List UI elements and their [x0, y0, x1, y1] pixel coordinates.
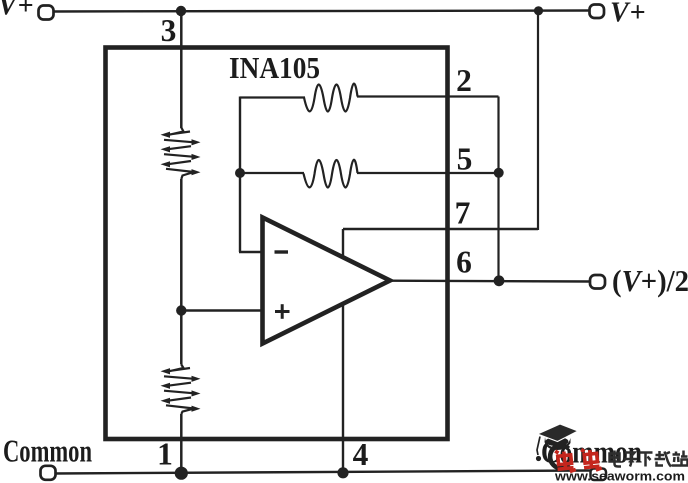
junction: bottom rail / pin 1 [175, 467, 188, 480]
wire: bottom Common rail [54, 471, 591, 474]
terminal: Common bottom-left [41, 466, 56, 480]
wire: right vertical pin2-pin5-pin6 [497, 97, 499, 282]
junction: R2 left / inverting node [235, 168, 245, 178]
svg-text:1: 1 [157, 437, 173, 472]
op-amp minus sign [275, 250, 289, 253]
junction: top rail / pin3 [176, 6, 186, 16]
watermark: graduation cap board [538, 424, 579, 442]
watermark: cap tassel [537, 437, 540, 456]
svg-text:V+: V+ [610, 0, 646, 29]
watermark: red bug 1 [555, 449, 576, 473]
watermark: logo big C [550, 445, 569, 468]
svg-text:INA105: INA105 [229, 50, 320, 85]
watermark: text 电子下载站 (drawn) [610, 451, 688, 467]
svg-text:Common: Common [3, 433, 92, 469]
svg-text:6: 6 [456, 245, 472, 280]
resistor: R1 (wavy) [304, 84, 358, 112]
svg-text:3: 3 [161, 13, 177, 48]
junction: top rail / pin7 net [534, 6, 543, 15]
wire: pin5 / R2 [240, 172, 304, 174]
svg-text:V+: V+ [0, 0, 34, 22]
wire: pin 3 vertical (V+ divider) [180, 11, 183, 128]
junction: pin5 / right vertical [494, 168, 504, 178]
terminal: Common bottom-right [591, 469, 607, 481]
IC box INA105 [106, 48, 448, 440]
junction: + input node [176, 305, 186, 315]
wire: inverting input vertical [239, 97, 241, 253]
wire: op-amp supply vertical to pin 4 [342, 229, 344, 474]
wire: + input [181, 309, 263, 311]
svg-text:5: 5 [457, 142, 473, 177]
svg-text:7: 7 [455, 196, 471, 231]
resistor: upper divider (arrow zigzag) [161, 128, 201, 180]
terminal: V+ top-left [39, 6, 54, 20]
svg-text:(V+)/2: (V+)/2 [612, 263, 688, 298]
junction: pin6 / right vertical [494, 275, 505, 286]
watermark: red bug 2 [581, 448, 602, 472]
站 [672, 451, 688, 466]
子 [624, 453, 638, 467]
svg-text:4: 4 [353, 437, 369, 472]
svg-text:www.seaworm.com: www.seaworm.com [554, 470, 685, 483]
junction: bottom rail / pin 4 [337, 467, 348, 478]
resistor: lower divider (arrow zigzag) [161, 365, 201, 415]
下 [640, 453, 653, 467]
op-amp U1 [263, 218, 391, 344]
op-amp plus sign [275, 310, 290, 313]
resistor: R2 (wavy) [304, 160, 358, 188]
watermark: graduation cap base [536, 424, 578, 461]
载 [655, 451, 672, 467]
wire: pin 6 output [389, 280, 591, 283]
svg-text:2: 2 [456, 63, 472, 98]
terminal: V+ top-right [590, 5, 605, 19]
wire: pin2 / R1 feedback top [240, 96, 305, 98]
wire: top V+ rail [52, 11, 591, 12]
电 [610, 451, 622, 467]
wire: pin 7 to V+ [343, 228, 538, 230]
terminal: output [590, 275, 605, 289]
